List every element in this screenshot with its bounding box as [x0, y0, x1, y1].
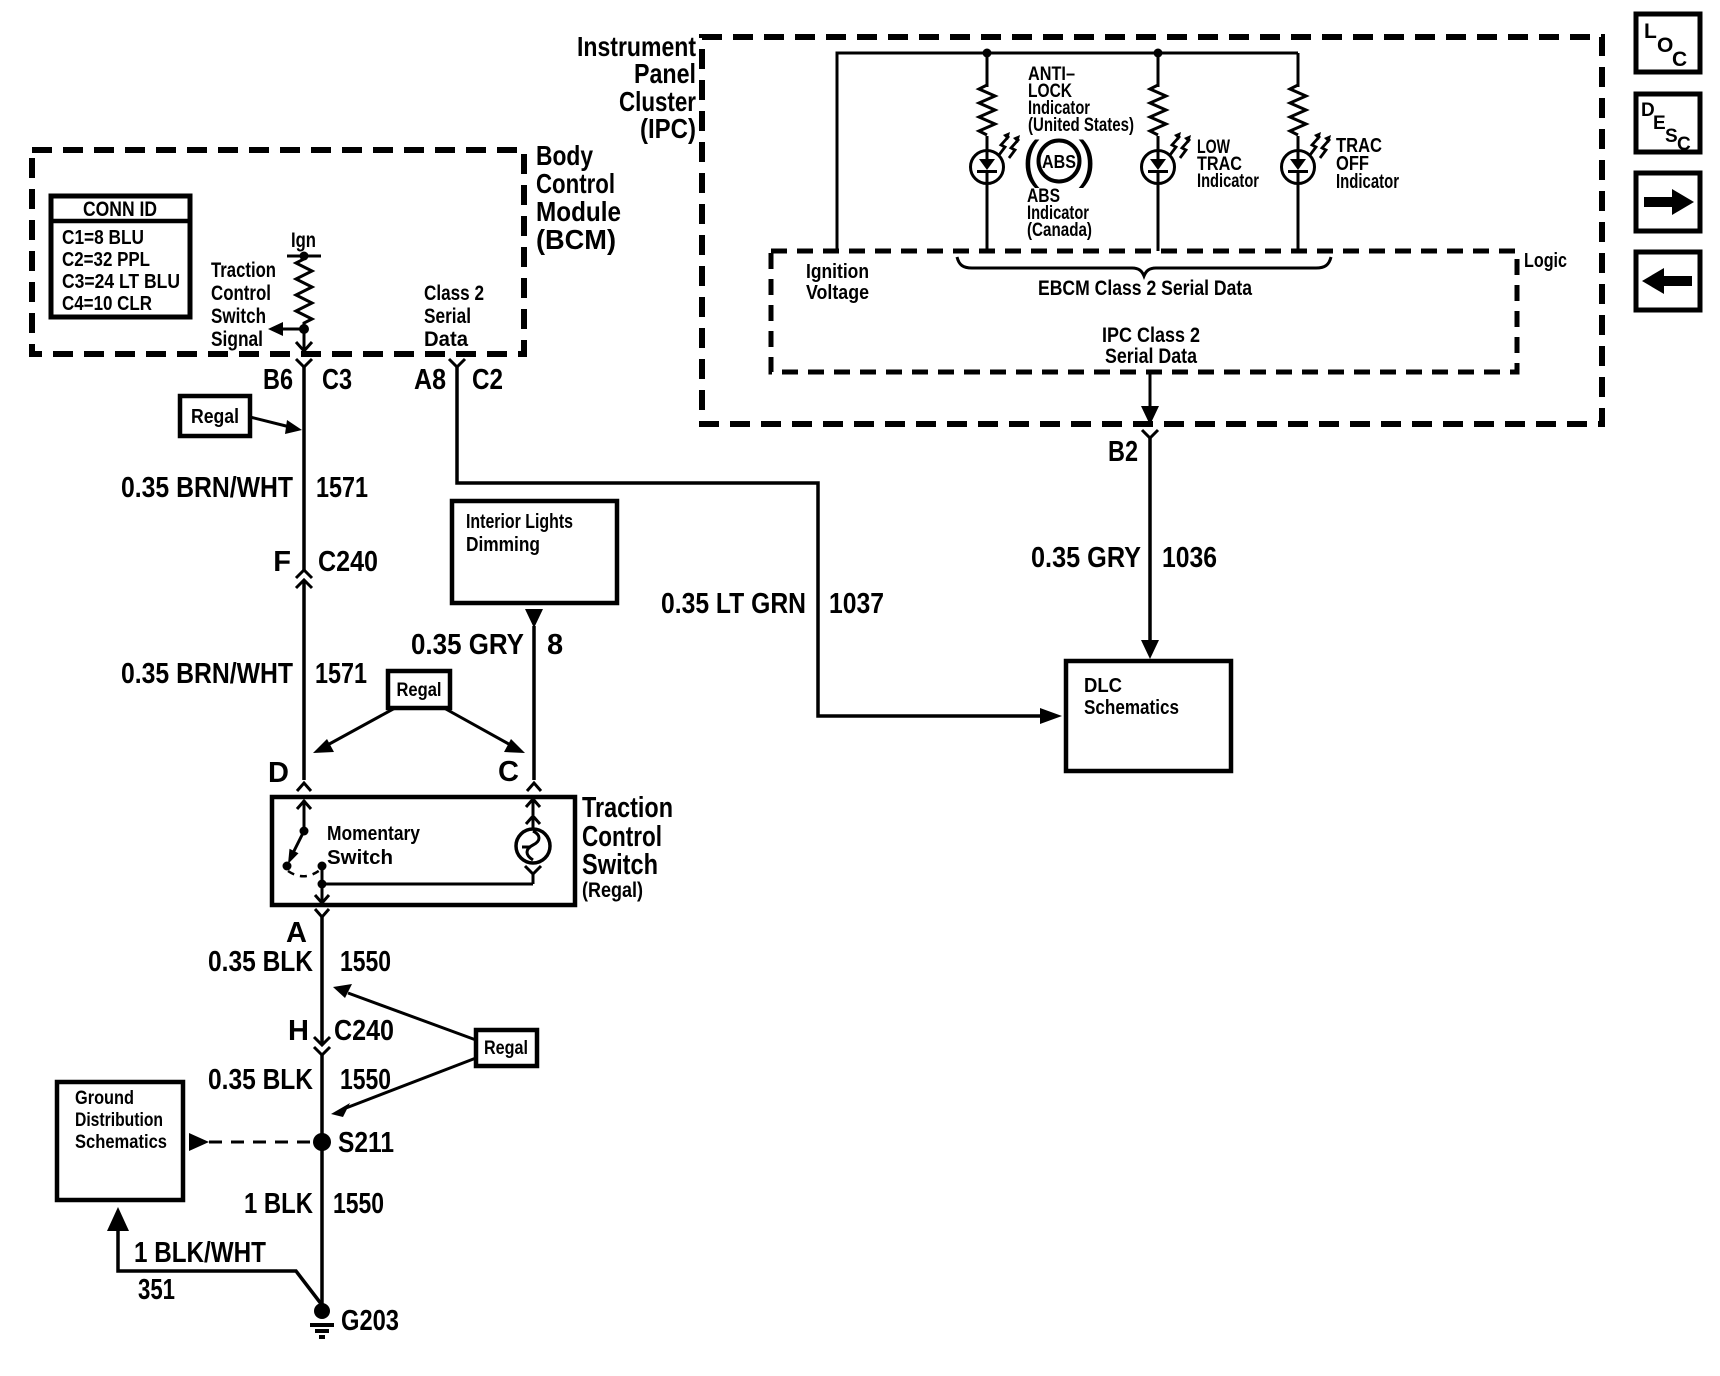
lamp traction control indicator	[516, 829, 550, 863]
label Ground Distribution Schematics	[75, 1088, 167, 1153]
wire branch 2 upper	[1157, 53, 1160, 87]
junction dot branch 1	[983, 49, 992, 58]
wire D terminal arrow (inside box)	[303, 800, 306, 828]
svg-text:C2=32 PPL: C2=32 PPL	[62, 249, 150, 271]
svg-text:IPC Class 2: IPC Class 2	[1102, 324, 1200, 347]
svg-text:G203: G203	[341, 1305, 399, 1337]
connector chevron A (below box)	[315, 909, 329, 917]
svg-text:Serial Data: Serial Data	[1105, 345, 1197, 368]
splice S211	[313, 1133, 331, 1151]
wire branch 3 upper	[1297, 53, 1300, 87]
svg-text:Dimming: Dimming	[466, 534, 540, 556]
svg-text:0.35 BRN/WHT: 0.35 BRN/WHT	[121, 658, 293, 690]
LED low trac indicator	[1142, 151, 1175, 184]
svg-text:C: C	[498, 756, 519, 788]
svg-text:1550: 1550	[333, 1188, 384, 1220]
svg-text:1571: 1571	[316, 472, 368, 504]
connector chevron below lamp	[525, 866, 541, 874]
svg-text:S211: S211	[338, 1127, 394, 1159]
svg-text:Traction: Traction	[211, 259, 276, 282]
svg-text:C3=24 LT BLU: C3=24 LT BLU	[62, 271, 180, 293]
connector chevron D	[297, 783, 311, 791]
junction dot signal node	[299, 324, 309, 334]
wire branch 1 upper	[986, 53, 989, 87]
svg-text:C4=10 CLR: C4=10 CLR	[62, 293, 152, 315]
label DLC Schematics	[1084, 675, 1179, 719]
svg-text:L: L	[1644, 20, 1657, 43]
wire branch 2 to LED	[1157, 136, 1160, 152]
svg-text:Logic: Logic	[1524, 250, 1567, 272]
label Body Control Module (BCM)	[536, 140, 621, 255]
svg-text:1 BLK/WHT: 1 BLK/WHT	[134, 1237, 266, 1269]
svg-text:1 BLK: 1 BLK	[244, 1188, 313, 1220]
connector chevron A8/C2	[449, 359, 465, 367]
svg-text:Indicator: Indicator	[1197, 171, 1259, 192]
svg-text:C240: C240	[318, 546, 378, 578]
svg-text:Module: Module	[536, 196, 621, 227]
svg-text:CONN ID: CONN ID	[83, 198, 157, 221]
svg-text:Ignition: Ignition	[806, 261, 869, 283]
svg-text:Schematics: Schematics	[75, 1132, 167, 1153]
wire signal down to BCM edge	[303, 329, 306, 350]
svg-text:(Regal): (Regal)	[582, 879, 643, 902]
svg-text:Serial: Serial	[424, 305, 471, 328]
wire A exit arrow (inside box)	[321, 884, 324, 902]
svg-text:D: D	[268, 757, 289, 789]
svg-text:Class 2: Class 2	[424, 282, 484, 305]
LED arrows branch 3	[1310, 132, 1331, 158]
connector chevron C	[527, 783, 541, 791]
wire 1550 upper segment	[320, 917, 324, 1044]
svg-text:0.35 BLK: 0.35 BLK	[208, 1064, 313, 1096]
svg-text:351: 351	[138, 1274, 175, 1306]
svg-text:1550: 1550	[340, 1064, 391, 1096]
label Momentary Switch	[327, 823, 421, 869]
svg-text:1036: 1036	[1162, 542, 1217, 574]
svg-text:1571: 1571	[315, 658, 367, 690]
callout box Regal (upper)	[180, 396, 250, 436]
contact dot left	[283, 862, 292, 871]
button LOC	[1636, 14, 1700, 72]
junction dot branch 2	[1154, 49, 1163, 58]
arrowhead from ground distribution box	[107, 1207, 129, 1231]
wire branch 3 to LED	[1297, 136, 1300, 152]
svg-text:Indicator: Indicator	[1336, 171, 1399, 193]
LED anti-lock indicator	[971, 151, 1004, 184]
svg-text:B2: B2	[1108, 436, 1138, 468]
svg-text:0.35 BLK: 0.35 BLK	[208, 946, 313, 978]
svg-text:Panel: Panel	[634, 58, 696, 89]
arrowhead B2 into DLC	[1141, 640, 1159, 659]
dashed reference wire to S211	[189, 1133, 209, 1151]
ground G203	[310, 1303, 334, 1337]
wire 1571 lower segment	[302, 580, 306, 780]
junction dot ign	[300, 252, 309, 261]
dashed travel arc	[288, 870, 320, 876]
connector C240 pin H chevrons	[314, 1037, 330, 1045]
svg-text:Regal: Regal	[191, 406, 239, 428]
svg-text:F: F	[273, 546, 291, 578]
svg-text:1550: 1550	[340, 946, 391, 978]
resistor low trac indicator	[1150, 85, 1166, 135]
svg-text:Signal: Signal	[211, 328, 263, 351]
wire branch 2 lower	[1157, 183, 1160, 251]
wire arrow to left (signal)	[281, 328, 304, 331]
arrow Regal to wire	[250, 417, 290, 427]
svg-text:Distribution: Distribution	[75, 1110, 163, 1131]
wire branch 1 lower	[986, 183, 989, 251]
callout box Regal (middle)	[388, 671, 450, 708]
symbol ABS emblem	[1022, 131, 1095, 189]
svg-text:Schematics: Schematics	[1084, 697, 1179, 719]
svg-text:C: C	[1672, 48, 1687, 71]
wire 351 BLK/WHT	[118, 1231, 322, 1305]
arrow Regal to 1550 upper	[348, 993, 476, 1040]
button DESC	[1636, 94, 1700, 155]
wire B2 exit	[1149, 372, 1152, 407]
LED arrows branch 1	[999, 132, 1020, 158]
svg-text:C2: C2	[472, 364, 503, 396]
arrow Regal to 1550 lower	[346, 1058, 476, 1108]
module box IPC (dashed)	[702, 37, 1602, 424]
svg-text:Body: Body	[536, 140, 593, 171]
LED arrows branch 2	[1170, 132, 1191, 158]
svg-text:C240: C240	[334, 1015, 394, 1047]
wire branch 3 lower	[1297, 183, 1300, 251]
svg-text:0.35 LT GRN: 0.35 LT GRN	[661, 588, 806, 620]
svg-text:Interior Lights: Interior Lights	[466, 511, 573, 533]
svg-text:0.35 GRY: 0.35 GRY	[1031, 542, 1141, 574]
svg-text:C3: C3	[322, 364, 352, 396]
wire 8 GRY	[532, 626, 536, 780]
svg-text:(Canada): (Canada)	[1027, 220, 1092, 241]
wire contact to output	[321, 866, 324, 884]
svg-text:Data: Data	[424, 328, 468, 351]
svg-text:Ground: Ground	[75, 1088, 134, 1109]
destination box DLC Schematics	[1066, 661, 1231, 771]
svg-text:Traction: Traction	[582, 792, 673, 824]
svg-text:Ign: Ign	[291, 229, 316, 252]
arrowhead from dimming box	[525, 609, 543, 628]
svg-text:(IPC): (IPC)	[640, 113, 696, 144]
arrow Regal to C wire	[444, 708, 516, 748]
brace EBCM serial data	[957, 257, 1331, 276]
svg-text:E: E	[1653, 113, 1666, 134]
callout box Regal (lower)	[476, 1030, 537, 1066]
svg-text:0.35 BRN/WHT: 0.35 BRN/WHT	[121, 472, 293, 504]
wire B2 to DLC	[1148, 438, 1152, 641]
svg-text:B6: B6	[263, 364, 293, 396]
resistor anti-lock indicator	[979, 85, 995, 135]
svg-text:Regal: Regal	[397, 680, 442, 701]
label ANTI-LOCK Indicator (United States)	[1028, 64, 1134, 136]
svg-text:EBCM Class 2 Serial Data: EBCM Class 2 Serial Data	[1038, 277, 1252, 300]
label Traction Control Switch Signal	[211, 259, 276, 351]
table CONN ID	[51, 196, 190, 317]
wire 1550 middle segment	[320, 1055, 324, 1311]
svg-text:C1=8 BLU: C1=8 BLU	[62, 227, 144, 249]
wire class 2 serial data to DLC	[457, 367, 1040, 716]
svg-text:Switch: Switch	[582, 849, 658, 881]
svg-text:Momentary: Momentary	[327, 823, 421, 845]
switch blade momentary	[293, 831, 304, 853]
module box BCM (dashed)	[32, 150, 524, 354]
wire IPC supply bus	[837, 53, 1298, 251]
label ABS Indicator (Canada)	[1027, 186, 1092, 241]
junction dot switch pivot	[300, 827, 309, 836]
svg-text:S: S	[1665, 126, 1678, 147]
arrow Regal to D wire	[322, 708, 395, 748]
svg-text:H: H	[288, 1015, 309, 1047]
label Traction Control Switch	[582, 792, 673, 902]
component box Traction Control Switch	[272, 797, 575, 905]
button back (left arrow)	[1636, 252, 1700, 310]
svg-text:): )	[1078, 131, 1095, 189]
wire branch 1 to LED	[986, 136, 989, 152]
destination box Interior Lights Dimming	[452, 501, 617, 603]
svg-text:ABS: ABS	[1042, 152, 1076, 172]
svg-text:A: A	[286, 917, 307, 949]
label Interior Lights Dimming	[466, 511, 573, 556]
connector C240 pin F chevrons	[296, 570, 312, 578]
contact dot right	[318, 862, 327, 871]
svg-text:(BCM): (BCM)	[536, 224, 616, 255]
svg-text:0.35 GRY: 0.35 GRY	[411, 629, 524, 661]
wire ign feed tick	[287, 255, 321, 258]
connector chevron B2	[1142, 430, 1158, 438]
label Ignition Voltage	[806, 261, 869, 304]
svg-text:1037: 1037	[829, 588, 884, 620]
button next (right arrow)	[1636, 173, 1700, 231]
svg-text:O: O	[1657, 34, 1673, 57]
wire 1571 upper segment	[302, 367, 306, 570]
svg-text:Switch: Switch	[327, 847, 393, 869]
svg-text:Regal: Regal	[484, 1038, 528, 1059]
svg-text:Voltage: Voltage	[806, 282, 869, 304]
svg-text:A8: A8	[414, 364, 446, 396]
logic box (dashed)	[771, 251, 1517, 372]
svg-text:DLC: DLC	[1084, 675, 1122, 697]
svg-text:8: 8	[547, 629, 563, 661]
svg-text:C: C	[1677, 134, 1691, 155]
arrowhead into DLC schematics	[1040, 708, 1062, 724]
connector chevron B6/C3	[296, 359, 312, 367]
svg-text:Control: Control	[211, 282, 271, 305]
label Class 2 Serial Data	[424, 282, 484, 351]
LED trac off indicator	[1282, 151, 1315, 184]
wire switch output bus	[322, 883, 533, 886]
svg-text:Switch: Switch	[211, 305, 266, 328]
svg-text:Control: Control	[536, 168, 615, 199]
label IPC Class 2 Serial Data	[1102, 324, 1200, 368]
label TRAC OFF Indicator	[1336, 135, 1399, 193]
destination box Ground Distribution Schematics	[57, 1082, 183, 1200]
resistor trac off indicator	[1290, 85, 1306, 135]
junction dot output	[318, 880, 327, 889]
resistor traction control switch signal (BCM internal)	[296, 257, 312, 325]
wire C terminal arrows (inside box)	[532, 799, 535, 815]
label LOW TRAC Indicator	[1197, 137, 1259, 192]
label Instrument Panel Cluster (IPC)	[577, 31, 696, 144]
